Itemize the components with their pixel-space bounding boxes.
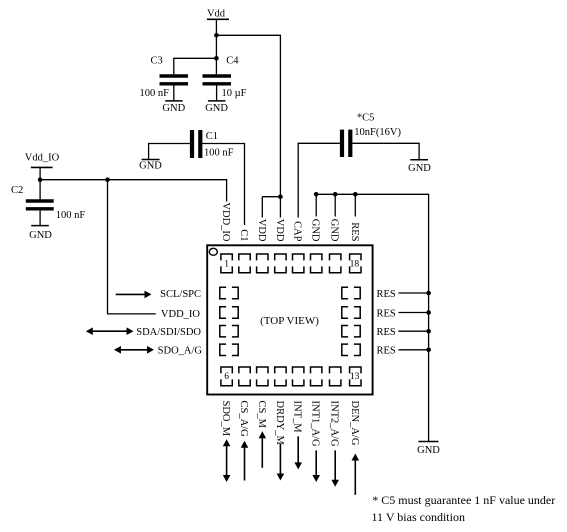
node C3 branch junction xyxy=(214,56,219,61)
svg-text:1: 1 xyxy=(224,260,229,270)
svg-text:11 V bias condition: 11 V bias condition xyxy=(372,510,465,524)
svg-text:INT1_A/G: INT1_A/G xyxy=(310,401,321,447)
pad left SDO_A/G xyxy=(220,344,238,355)
node bus junction RES xyxy=(353,192,358,197)
svg-text:CS_A/G: CS_A/G xyxy=(238,401,249,438)
pad top VDD xyxy=(275,254,286,273)
svg-text:INT_M: INT_M xyxy=(292,401,303,434)
wire VDD pin branch xyxy=(262,196,280,198)
svg-text:VDD_IO: VDD_IO xyxy=(220,202,231,241)
svg-text:GND: GND xyxy=(205,103,228,114)
svg-text:Vdd_IO: Vdd_IO xyxy=(25,153,60,164)
wire GND pin stub 2 xyxy=(334,194,336,216)
node branch to left VDD_IO pin xyxy=(105,177,110,182)
arrow bidir SDO_A/G xyxy=(120,349,148,351)
wire Vdd_IO to VDD_IO top pin xyxy=(40,180,227,202)
ground C2 xyxy=(29,226,52,241)
svg-text:GND: GND xyxy=(408,163,431,174)
svg-text:100 nF: 100 nF xyxy=(140,88,170,99)
svg-text:10 µF: 10 µF xyxy=(222,88,247,99)
node Vdd rail junction xyxy=(214,33,219,38)
pad bottom DEN_A/G xyxy=(350,367,361,386)
svg-text:RES: RES xyxy=(377,308,396,319)
arrow output INT_M xyxy=(297,436,299,463)
svg-text:DRDY_M: DRDY_M xyxy=(274,401,285,446)
op-amp U1: IC package outline (LGA-24, top view) xyxy=(207,245,372,394)
ground C4 xyxy=(205,101,228,114)
node bus junction GND1 xyxy=(314,192,319,197)
node RES 16 junction xyxy=(426,329,431,334)
pad bottom INT_M xyxy=(293,367,304,386)
wire C5 right to GND xyxy=(352,143,419,160)
pad right RES3 xyxy=(342,326,360,337)
pad bottom SDO_M xyxy=(221,367,232,386)
svg-text:6: 6 xyxy=(224,372,229,382)
svg-text:(TOP VIEW): (TOP VIEW) xyxy=(260,315,319,327)
svg-text:SDA/SDI/SDO: SDA/SDI/SDO xyxy=(136,327,201,338)
pad bottom CS_A/G xyxy=(239,367,250,386)
svg-text:10nF(16V): 10nF(16V) xyxy=(354,127,401,138)
wire RES 17 to bus xyxy=(399,349,429,351)
svg-text:VDD: VDD xyxy=(256,219,267,242)
wire GND/RES bus xyxy=(316,194,428,441)
pad right RES1 xyxy=(342,287,360,298)
svg-text:* C5 must guarantee 1 nF value: * C5 must guarantee 1 nF value under xyxy=(372,493,555,507)
svg-text:GND: GND xyxy=(329,219,340,242)
wire VDD pin stub 1 xyxy=(261,197,263,218)
svg-text:SCL/SPC: SCL/SPC xyxy=(160,289,201,300)
power Vdd xyxy=(207,9,229,20)
svg-text:100 nF: 100 nF xyxy=(56,210,86,221)
arrow input SCL/SPC xyxy=(116,293,146,295)
svg-text:*C5: *C5 xyxy=(357,112,375,123)
svg-text:GND: GND xyxy=(162,103,185,114)
svg-text:RES: RES xyxy=(377,289,396,300)
capacitor C4 xyxy=(203,56,247,101)
pad right RES2 xyxy=(342,307,360,318)
capacitor C1 xyxy=(192,130,234,159)
pad left VDD_IO xyxy=(220,307,238,318)
arrow output INT2_A/G xyxy=(334,450,336,480)
svg-text:GND: GND xyxy=(139,160,162,171)
ground C3 xyxy=(162,101,185,114)
svg-text:CAP: CAP xyxy=(292,221,303,242)
svg-text:C1: C1 xyxy=(206,131,218,142)
wire RES pin stub xyxy=(354,194,356,216)
wire C5 left to CAP pin xyxy=(298,143,340,217)
pad bottom INT2_A/G xyxy=(330,367,341,386)
svg-text:GND: GND xyxy=(29,230,52,241)
pad bottom CS_M xyxy=(257,367,268,386)
wire RES 15 to bus xyxy=(399,312,429,314)
svg-text:GND: GND xyxy=(310,219,321,242)
pad top GND xyxy=(311,254,322,273)
ground bottom right xyxy=(417,442,440,457)
pad top C1 xyxy=(239,254,250,273)
ground C1 xyxy=(139,160,162,172)
arrow input CS_M xyxy=(261,437,263,468)
svg-text:DEN_A/G: DEN_A/G xyxy=(349,401,360,446)
power Vdd_IO xyxy=(25,153,60,168)
pad bottom INT1_A/G xyxy=(311,367,322,386)
svg-text:18: 18 xyxy=(350,260,360,270)
wire Vdd_IO down xyxy=(39,167,41,199)
svg-text:C2: C2 xyxy=(11,185,23,196)
pad bottom DRDY_M xyxy=(275,367,286,386)
svg-text:SDO_M: SDO_M xyxy=(220,401,231,437)
node VDD branch junction xyxy=(278,194,283,199)
arrow bidir SDA/SDI/SDO xyxy=(92,330,128,332)
wire C3 branch xyxy=(174,58,217,74)
pad top VDD xyxy=(257,254,268,273)
svg-text:INT2_A/G: INT2_A/G xyxy=(329,401,340,447)
wire GND pin stub 1 xyxy=(315,194,317,216)
wire VDD pin stub 2 xyxy=(279,197,281,218)
capacitor C3 xyxy=(140,56,189,101)
arrow output INT1_A/G xyxy=(315,450,317,476)
svg-text:SDO_A/G: SDO_A/G xyxy=(158,346,203,357)
arrow bidir SDO_M xyxy=(226,445,228,476)
svg-text:GND: GND xyxy=(417,445,440,456)
svg-text:C1: C1 xyxy=(238,229,249,241)
pad top GND xyxy=(330,254,341,273)
node bus junction GND2 xyxy=(333,192,338,197)
node RES 14 junction xyxy=(426,291,431,296)
svg-text:RES: RES xyxy=(377,327,396,338)
svg-text:RES: RES xyxy=(377,346,396,357)
pad right RES4 xyxy=(342,344,360,355)
svg-text:VDD: VDD xyxy=(274,219,285,242)
wire RES 16 to bus xyxy=(399,330,429,332)
pin 1 indicator circle xyxy=(209,248,217,255)
node RES 15 junction xyxy=(426,310,431,315)
arrow input CS_A/G xyxy=(244,447,246,481)
arrow output DRDY_M xyxy=(279,444,281,475)
capacitor C5 xyxy=(342,112,401,157)
pad top CAP xyxy=(293,254,304,273)
svg-text:Vdd: Vdd xyxy=(207,9,226,20)
pad top VDD_IO xyxy=(221,254,232,273)
svg-text:VDD_IO: VDD_IO xyxy=(161,309,200,320)
wire branch to left VDD_IO pin xyxy=(108,180,156,314)
svg-text:RES: RES xyxy=(349,222,360,241)
svg-text:13: 13 xyxy=(350,372,360,382)
wire Vdd to VDD pins xyxy=(216,35,280,196)
svg-text:C4: C4 xyxy=(226,56,239,67)
pad left SCL/SPC xyxy=(220,287,238,298)
arrow input DEN_A/G xyxy=(354,460,356,495)
wire RES 14 to bus xyxy=(399,292,429,294)
node Vdd_IO junction xyxy=(38,177,43,182)
pad top RES xyxy=(350,254,361,273)
svg-text:CS_M: CS_M xyxy=(256,401,267,429)
ground C5 xyxy=(408,160,431,174)
wire C1 right to pin C1 xyxy=(202,144,244,226)
wire C1 left to GND xyxy=(149,144,190,160)
pad left SDA/SDI/SDO xyxy=(220,326,238,337)
capacitor C2 xyxy=(11,185,85,226)
node RES 17 junction xyxy=(426,348,431,353)
wire Vdd vertical xyxy=(215,19,217,74)
svg-text:100 nF: 100 nF xyxy=(204,148,234,159)
svg-text:C3: C3 xyxy=(151,56,163,67)
